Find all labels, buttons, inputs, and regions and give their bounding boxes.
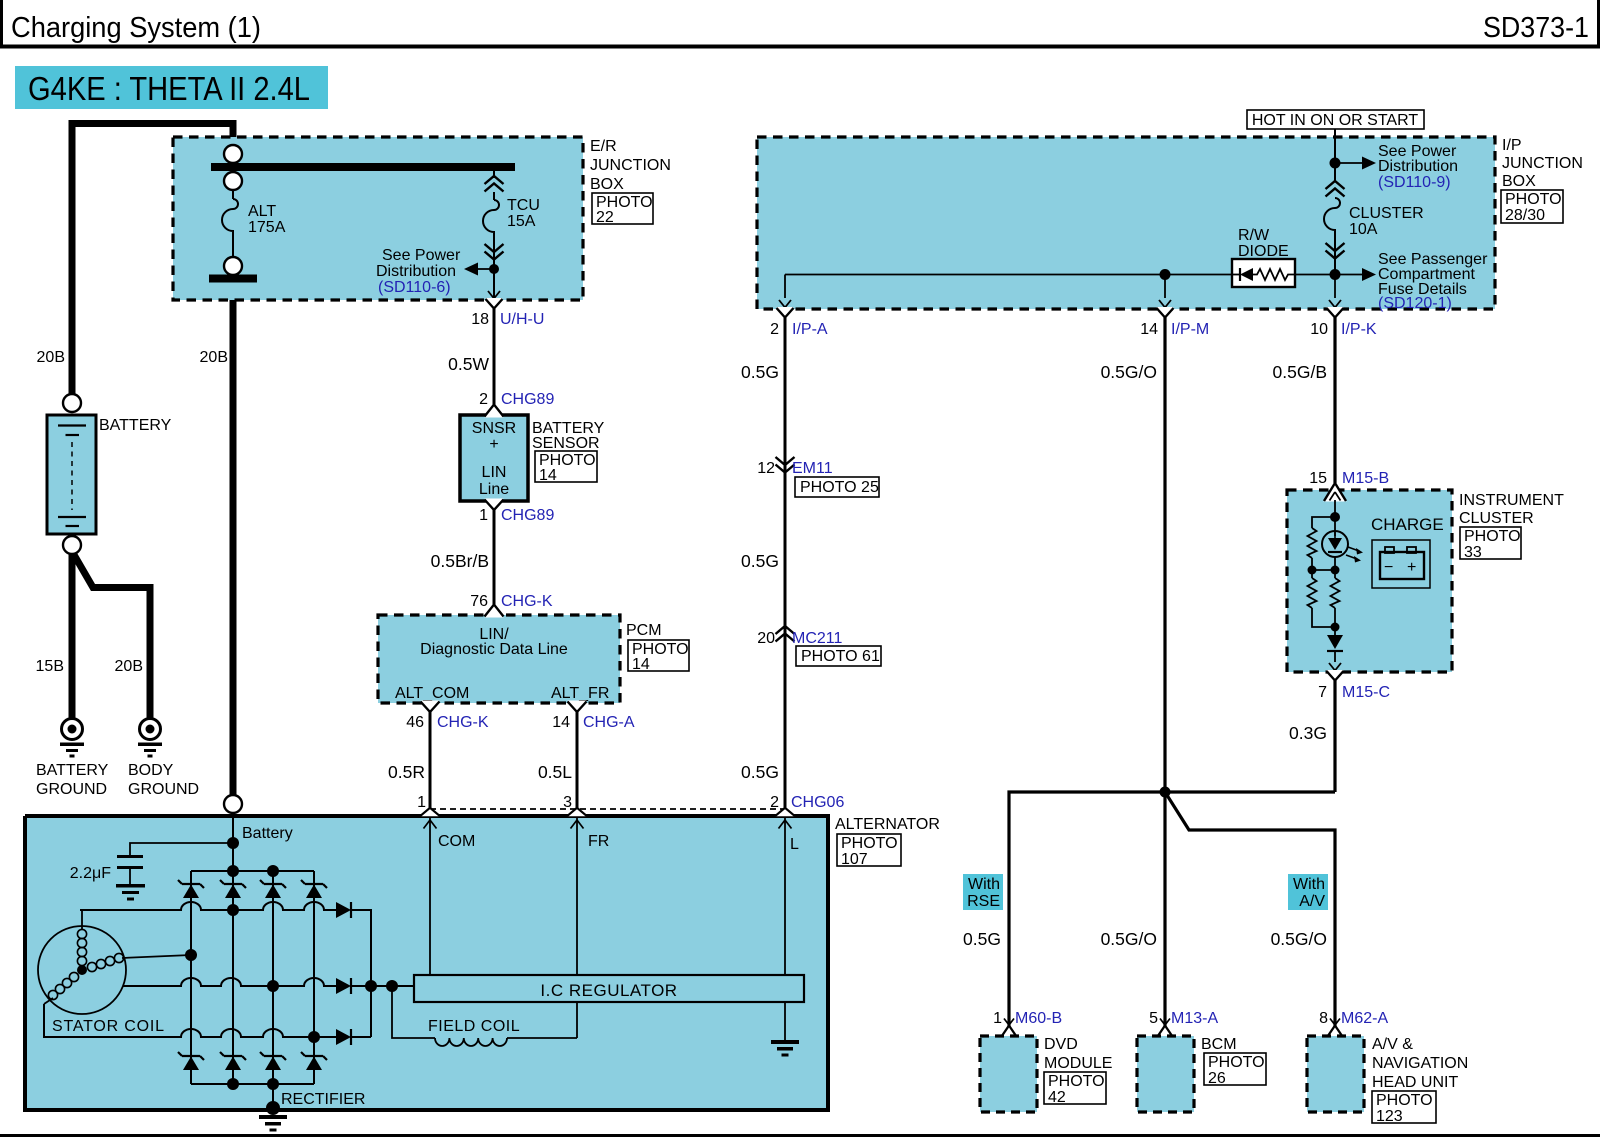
svg-text:+: + [489,436,498,453]
svg-text:M62-A: M62-A [1341,1010,1388,1027]
svg-text:2: 2 [770,321,779,338]
svg-text:Distribution: Distribution [1378,158,1458,175]
svg-text:+: + [1407,559,1416,576]
svg-text:M60-B: M60-B [1015,1010,1062,1027]
svg-text:12: 12 [757,460,775,477]
svg-text:FR: FR [588,833,609,850]
svg-text:RSE: RSE [967,893,1000,910]
svg-text:A/V: A/V [1299,893,1325,910]
svg-text:NAVIGATION: NAVIGATION [1372,1055,1468,1072]
svg-text:8: 8 [1319,1010,1328,1027]
svg-text:COM: COM [438,833,475,850]
svg-text:5: 5 [1149,1010,1158,1027]
svg-text:BOX: BOX [1502,173,1536,190]
svg-text:With: With [968,876,1000,893]
svg-text:Line: Line [479,481,509,498]
svg-text:PHOTO: PHOTO [1464,528,1521,545]
svg-text:CHG89: CHG89 [501,507,554,524]
svg-text:CHG06: CHG06 [791,794,844,811]
svg-text:18: 18 [471,311,489,328]
svg-text:I/P-A: I/P-A [792,321,828,338]
svg-text:HOT IN ON OR START: HOT IN ON OR START [1252,112,1418,129]
svg-text:CLUSTER: CLUSTER [1459,510,1534,527]
svg-text:7: 7 [1318,684,1327,701]
svg-text:PHOTO: PHOTO [1048,1073,1105,1090]
svg-text:CHG-A: CHG-A [583,714,635,731]
svg-text:28/30: 28/30 [1505,207,1545,224]
svg-text:Charging System (1): Charging System (1) [11,12,261,44]
svg-text:14: 14 [539,467,557,484]
svg-text:0.5G: 0.5G [741,762,779,782]
svg-text:(SD120-1): (SD120-1) [1378,295,1452,312]
svg-text:(SD110-9): (SD110-9) [1378,174,1451,191]
svg-text:BOX: BOX [590,176,624,193]
svg-text:0.5G: 0.5G [741,551,779,571]
svg-text:0.5G/B: 0.5G/B [1273,362,1327,382]
svg-text:G4KE : THETA II 2.4L: G4KE : THETA II 2.4L [28,71,310,108]
svg-text:EM11: EM11 [792,460,833,477]
svg-text:JUNCTION: JUNCTION [590,157,671,174]
svg-text:42: 42 [1048,1089,1066,1106]
svg-text:ALT_FR: ALT_FR [551,685,609,702]
svg-text:R/W: R/W [1238,227,1270,244]
svg-text:10: 10 [1310,321,1328,338]
svg-text:15B: 15B [36,658,64,675]
svg-text:SENSOR: SENSOR [532,435,600,452]
svg-text:PHOTO: PHOTO [1208,1054,1265,1071]
svg-text:2: 2 [770,794,779,811]
svg-text:ALT: ALT [248,203,276,220]
svg-text:20B: 20B [37,349,65,366]
svg-text:BATTERY: BATTERY [99,417,172,434]
svg-text:CHG-K: CHG-K [437,714,489,731]
svg-text:46: 46 [406,714,424,731]
svg-text:MODULE: MODULE [1044,1055,1112,1072]
svg-text:L: L [790,836,799,853]
svg-text:GROUND: GROUND [128,781,199,798]
svg-text:INSTRUMENT: INSTRUMENT [1459,492,1564,509]
svg-text:ALTERNATOR: ALTERNATOR [835,816,940,833]
svg-text:CHARGE: CHARGE [1371,515,1444,534]
svg-text:0.5G/O: 0.5G/O [1101,362,1157,382]
svg-text:RECTIFIER: RECTIFIER [281,1091,365,1108]
svg-text:CLUSTER: CLUSTER [1349,205,1424,222]
svg-text:TCU: TCU [507,197,540,214]
svg-text:107: 107 [841,851,868,868]
svg-text:E/R: E/R [590,138,617,155]
svg-text:MC211: MC211 [792,630,842,647]
svg-text:SD373-1: SD373-1 [1483,12,1589,44]
svg-text:See Power: See Power [382,247,461,264]
svg-text:A/V &: A/V & [1372,1036,1413,1053]
svg-text:1: 1 [479,507,488,524]
svg-text:15A: 15A [507,213,536,230]
svg-text:2: 2 [479,391,488,408]
svg-text:CHG89: CHG89 [501,391,554,408]
svg-text:U/H-U: U/H-U [500,311,544,328]
svg-text:175A: 175A [248,219,286,236]
svg-text:10A: 10A [1349,221,1378,238]
svg-text:I/P: I/P [1502,137,1522,154]
svg-text:With: With [1293,876,1325,893]
svg-text:0.5L: 0.5L [538,762,572,782]
svg-text:26: 26 [1208,1070,1226,1087]
svg-text:76: 76 [470,593,488,610]
svg-text:DIODE: DIODE [1238,243,1289,260]
svg-text:PHOTO: PHOTO [1376,1092,1433,1109]
svg-text:0.5G/O: 0.5G/O [1271,929,1327,949]
svg-text:15: 15 [1309,470,1327,487]
svg-text:Distribution: Distribution [376,263,456,280]
svg-text:I.C REGULATOR: I.C REGULATOR [540,981,677,1000]
svg-text:I/P-K: I/P-K [1341,321,1377,338]
svg-text:Battery: Battery [242,825,293,842]
svg-text:0.5W: 0.5W [448,354,489,374]
svg-text:1: 1 [993,1010,1002,1027]
svg-text:0.5Br/B: 0.5Br/B [431,551,489,571]
svg-text:PHOTO: PHOTO [841,835,898,852]
svg-text:0.5G/O: 0.5G/O [1101,929,1157,949]
svg-text:PHOTO: PHOTO [1505,191,1562,208]
svg-text:0.3G: 0.3G [1289,723,1327,743]
svg-text:123: 123 [1376,1108,1403,1125]
svg-text:STATOR COIL: STATOR COIL [52,1018,165,1035]
svg-text:0.5R: 0.5R [388,762,425,782]
svg-text:22: 22 [596,209,614,226]
svg-text:PHOTO 61: PHOTO 61 [801,648,880,665]
svg-text:20B: 20B [115,658,143,675]
svg-text:HEAD UNIT: HEAD UNIT [1372,1074,1458,1091]
svg-text:I/P-M: I/P-M [1171,321,1209,338]
svg-text:FIELD COIL: FIELD COIL [428,1018,520,1035]
svg-text:LIN: LIN [482,464,507,481]
svg-text:ALT_COM: ALT_COM [395,685,469,702]
svg-text:14: 14 [1140,321,1158,338]
svg-text:3: 3 [563,794,572,811]
svg-text:JUNCTION: JUNCTION [1502,155,1583,172]
svg-text:M13-A: M13-A [1171,1010,1218,1027]
svg-text:Diagnostic Data Line: Diagnostic Data Line [420,641,568,658]
svg-text:M15-C: M15-C [1342,684,1390,701]
svg-text:(SD110-6): (SD110-6) [378,279,451,296]
svg-text:20: 20 [757,630,775,647]
svg-text:SNSR: SNSR [472,420,516,437]
svg-text:14: 14 [632,656,650,673]
svg-text:M15-B: M15-B [1342,470,1389,487]
svg-text:14: 14 [552,714,570,731]
svg-text:GROUND: GROUND [36,781,107,798]
svg-text:BATTERY: BATTERY [36,762,109,779]
svg-text:PCM: PCM [626,622,662,639]
svg-text:PHOTO 25: PHOTO 25 [800,479,879,496]
svg-text:1: 1 [417,794,426,811]
svg-text:BODY: BODY [128,762,174,779]
svg-text:CHG-K: CHG-K [501,593,553,610]
svg-text:20B: 20B [200,349,228,366]
svg-text:DVD: DVD [1044,1036,1078,1053]
svg-text:0.5G: 0.5G [963,929,1001,949]
svg-text:0.5G: 0.5G [741,362,779,382]
svg-text:2.2μF: 2.2μF [70,865,111,882]
svg-text:−: − [1384,559,1393,576]
svg-text:33: 33 [1464,544,1482,561]
svg-text:BCM: BCM [1201,1036,1237,1053]
